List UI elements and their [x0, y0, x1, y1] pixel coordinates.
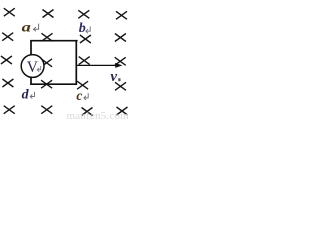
wire right rail b-c (rod)	[75, 40, 77, 85]
field cross row5 col3	[82, 108, 93, 116]
return mark after c	[84, 93, 88, 100]
field cross row1 col4	[116, 11, 127, 19]
subscript dot after v	[118, 78, 120, 81]
field cross row3 col1	[1, 56, 12, 64]
field cross row4 col1	[2, 79, 13, 87]
return mark after V	[37, 66, 41, 72]
field cross row4 col2 on bottom wire	[41, 80, 52, 88]
wire left bottom stub voltmeter to d	[30, 77, 32, 85]
field cross row4 col3 at corner c	[77, 81, 88, 89]
field cross row2 col2	[42, 33, 53, 41]
field cross row5 col2	[41, 106, 52, 114]
field cross row5 col4	[117, 107, 128, 115]
field cross row4 col4	[115, 82, 126, 90]
field cross row3 col2	[41, 59, 52, 67]
wire top rail a-b	[30, 40, 77, 42]
voltmeter circle	[21, 55, 44, 78]
svg-text:b: b	[79, 21, 86, 36]
field cross row1 col1	[4, 8, 15, 16]
field cross row2 col3	[80, 35, 91, 43]
wire bottom rail d-c	[30, 83, 77, 85]
field cross row1 col3	[78, 10, 89, 18]
return mark after a	[34, 24, 39, 32]
svg-text:d: d	[22, 87, 30, 102]
field cross row3 col3 on rod	[79, 57, 90, 65]
field cross row1 col2	[43, 10, 54, 18]
svg-text:c: c	[76, 88, 82, 103]
field cross row3 col4	[115, 57, 126, 65]
return mark after b	[86, 26, 90, 33]
svg-text:v: v	[110, 69, 117, 85]
field cross row2 col1	[2, 33, 13, 41]
velocity arrow	[77, 64, 116, 66]
wire left top stub a to voltmeter	[30, 40, 32, 55]
field cross row5 col1	[4, 106, 15, 114]
svg-text:a: a	[22, 21, 31, 36]
field cross row2 col4	[115, 34, 126, 42]
svg-text:V: V	[27, 59, 39, 76]
svg-text:manfen5.com: manfen5.com	[67, 110, 130, 120]
return mark after d	[30, 92, 34, 99]
